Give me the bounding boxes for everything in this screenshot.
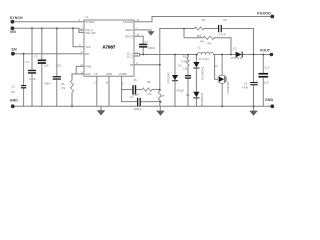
svg-text:47uF: 47uF xyxy=(242,86,248,90)
svg-text:100nF: 100nF xyxy=(148,46,156,50)
svg-text:EN: EN xyxy=(12,48,17,52)
svg-text:D1: D1 xyxy=(178,63,182,67)
svg-text:C2: C2 xyxy=(11,85,15,89)
svg-text:R6: R6 xyxy=(61,82,65,86)
svg-text:2x 47uH: 2x 47uH xyxy=(198,57,208,61)
svg-text:1uF: 1uF xyxy=(10,90,15,94)
svg-text:C3: C3 xyxy=(34,55,38,59)
svg-text:C10: C10 xyxy=(264,66,269,70)
svg-text:D2: D2 xyxy=(233,46,237,50)
svg-text:GND: GND xyxy=(265,98,273,102)
svg-text:GND: GND xyxy=(10,99,18,103)
svg-text:SYNCH: SYNCH xyxy=(10,16,23,20)
svg-text:STPS2L40: STPS2L40 xyxy=(168,72,170,84)
svg-text:560: 560 xyxy=(197,34,202,38)
svg-text:PGOOD: PGOOD xyxy=(123,20,133,24)
svg-text:C8: C8 xyxy=(223,18,227,22)
svg-text:VIN: VIN xyxy=(10,30,16,34)
svg-text:C4: C4 xyxy=(130,95,134,99)
svg-text:47k: 47k xyxy=(61,86,66,90)
svg-text:VBIAS: VBIAS xyxy=(125,28,133,32)
svg-text:BZX84C6V2: BZX84C6V2 xyxy=(203,66,205,79)
svg-text:BZX84C6V2: BZX84C6V2 xyxy=(202,92,204,105)
svg-text:C5: C5 xyxy=(133,78,137,82)
svg-text:C1: C1 xyxy=(26,60,30,64)
svg-text:TP: TP xyxy=(94,72,98,76)
svg-text:D4: D4 xyxy=(186,93,190,97)
svg-text:SYNCH: SYNCH xyxy=(85,20,94,24)
svg-text:STPS3L60: STPS3L60 xyxy=(231,57,244,60)
svg-text:1uF: 1uF xyxy=(264,81,269,85)
svg-text:FB: FB xyxy=(130,63,134,67)
svg-text:L1: L1 xyxy=(198,46,201,50)
svg-text:0.68R: 0.68R xyxy=(181,60,188,64)
svg-text:R15: R15 xyxy=(183,54,188,58)
svg-text:STPS2L40U: STPS2L40U xyxy=(228,81,230,94)
svg-text:ILIM: ILIM xyxy=(85,72,91,76)
svg-text:LX_2: LX_2 xyxy=(127,54,134,58)
svg-text:470pF: 470pF xyxy=(176,88,184,92)
svg-text:4.7k: 4.7k xyxy=(146,92,152,96)
svg-text:BOOT: BOOT xyxy=(125,34,133,38)
svg-text:4.7uF: 4.7uF xyxy=(29,77,36,81)
svg-text:R3: R3 xyxy=(202,18,206,22)
svg-text:A7987: A7987 xyxy=(102,44,115,49)
svg-text:EN: EN xyxy=(85,52,89,56)
svg-text:1uF: 1uF xyxy=(44,63,49,67)
svg-text:C7: C7 xyxy=(144,40,148,44)
svg-text:680pF: 680pF xyxy=(134,107,142,111)
svg-text:4.7nF: 4.7nF xyxy=(219,32,226,36)
svg-text:C9: C9 xyxy=(244,81,248,85)
svg-text:COMP: COMP xyxy=(119,72,127,76)
svg-text:VCC: VCC xyxy=(85,45,91,49)
svg-text:C11: C11 xyxy=(183,66,188,70)
svg-text:PGOOD: PGOOD xyxy=(257,12,271,16)
svg-text:FSW: FSW xyxy=(85,65,91,69)
svg-text:R5: R5 xyxy=(147,80,151,84)
svg-text:VOUT: VOUT xyxy=(260,48,271,52)
svg-text:R4: R4 xyxy=(200,40,204,44)
svg-text:VIN_SW: VIN_SW xyxy=(85,31,96,35)
svg-text:47k: 47k xyxy=(207,41,212,45)
svg-text:C10: C10 xyxy=(56,63,61,67)
svg-text:D3: D3 xyxy=(214,64,218,68)
svg-text:1.1k: 1.1k xyxy=(160,94,166,98)
svg-text:68nF: 68nF xyxy=(45,81,51,85)
svg-text:220pF: 220pF xyxy=(132,93,140,97)
svg-text:GND: GND xyxy=(106,72,112,76)
